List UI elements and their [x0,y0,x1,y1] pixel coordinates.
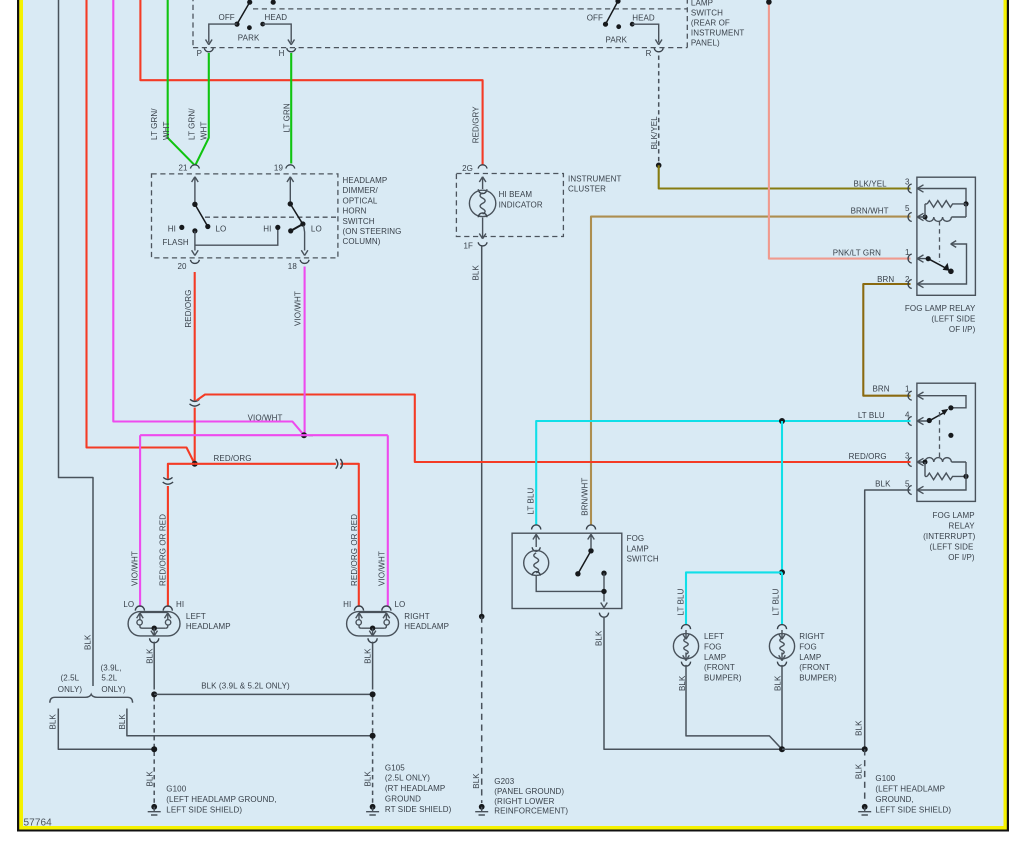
svg-text:BLK: BLK [84,634,93,650]
svg-text:HEADLAMP: HEADLAMP [186,622,231,631]
hi beam indicator bulb [469,190,495,216]
RED/ORG junction dot [192,461,198,467]
svg-text:19: 19 [274,164,284,173]
svg-text:(2.5L ONLY): (2.5L ONLY) [385,774,430,783]
svg-text:RED/GRY: RED/GRY [472,106,481,144]
svg-text:RT SIDE SHIELD): RT SIDE SHIELD) [385,805,452,814]
arrow into pin H [288,40,295,45]
fog switch common contact [588,548,593,553]
svg-text:BLK: BLK [472,265,481,281]
svg-text:HI: HI [343,600,351,609]
fog lamp switch box [512,533,622,608]
relay1 pin 5 cup [908,213,912,222]
left fog lamp input arrow [683,630,690,639]
svg-text:BLK: BLK [145,648,154,664]
left headlamp inner top line [140,611,168,613]
wire BRN/WHT relay1 pin5 to fog lamp switch [591,217,911,526]
svg-text:LEFT SIDE SHIELD): LEFT SIDE SHIELD) [875,806,951,815]
right headlamp HI cup [354,606,363,611]
svg-text:VIO/WHT: VIO/WHT [294,291,303,326]
svg-text:1: 1 [905,248,910,257]
wire BRN relay1 pin2 to relay2 pin1 [863,284,910,396]
relay2 pin 5 arrow [917,486,923,493]
dimmer pole2 aux contact [288,228,293,233]
relay1 resistor [927,201,966,208]
lamp switch left pole feed dots [247,0,252,5]
fog switch pin cup BRN/WHT [586,525,595,530]
fog switch lever open [578,551,591,574]
svg-text:5.2L: 5.2L [101,674,117,683]
wire LT BLU to left fog lamp [686,572,782,625]
right headlamp ground junction dots [370,691,376,697]
relay2 switch common contact [927,418,932,423]
pin 2G connector cup [478,165,487,169]
dimmer pole2 HI contact [275,225,280,230]
svg-text:(LEFT SIDE: (LEFT SIDE [930,543,974,552]
pin 18 connector cup [300,260,309,264]
fog switch lamp to output [536,576,604,591]
wire BLK left headlamp ground solid [153,642,155,690]
svg-text:G203: G203 [494,777,514,786]
inline connector on RED/ORG (vertical) [190,399,200,406]
svg-text:BLK: BLK [145,771,154,787]
lamp switch assembly dashed box [193,0,687,48]
arrow into pin R [655,40,662,45]
fog switch lamp bottom cup [532,572,540,576]
left headlamp ground junction dots [151,691,157,697]
dimmer pole2 input line with arrow up [287,177,294,204]
relay2 unused contact [948,433,953,438]
svg-text:G105: G105 [385,763,405,772]
svg-text:INDICATOR: INDICATOR [499,201,543,210]
svg-text:PANEL): PANEL) [691,39,720,48]
svg-text:(ON STEERING: (ON STEERING [343,227,402,236]
wire flash common to pin 20 and branch to pole2 HI [195,227,278,250]
svg-text:LT BLU: LT BLU [772,588,781,615]
fog lamp relay 2 box [917,383,976,501]
svg-text:BLK: BLK [678,675,687,691]
relay1 switch common contact [926,256,931,261]
svg-text:OFF: OFF [587,13,603,22]
svg-text:FOG LAMP: FOG LAMP [933,511,975,520]
svg-text:BRN: BRN [872,385,889,394]
svg-text:OF I/P): OF I/P) [949,325,976,334]
left fog lamp bottom cup [681,662,690,667]
fog lamp relay 1 box [917,177,976,295]
svg-text:RED/ORG OR RED: RED/ORG OR RED [159,514,168,586]
relay1 pin3 internal rail [917,189,966,204]
lamp switch right lever [606,1,619,24]
wire BLK/YEL solid to relay 1 pin 3 [659,165,911,188]
svg-text:20: 20 [177,262,187,271]
svg-text:FOG: FOG [627,534,645,543]
svg-text:2G: 2G [462,164,473,173]
svg-text:PARK: PARK [606,36,628,45]
fog switch output line [603,573,605,601]
svg-text:HEADLAMP: HEADLAMP [404,622,449,631]
right headlamp bottom cup [368,638,377,643]
wire bulb to pin 1F with arrow down [479,218,486,239]
left headlamp output arrow [151,628,158,636]
relay2 pin 3 cup [908,458,912,467]
svg-text:LEFT: LEFT [186,612,206,621]
junction dot on BLK at 616.5 [479,614,485,620]
dimmer pole2 LO contact [300,221,305,226]
lamp switch right HEAD contact [630,22,635,27]
svg-text:BRN/WHT: BRN/WHT [580,478,589,516]
svg-text:LAMP: LAMP [627,544,649,553]
right headlamp LO cup [382,606,391,611]
svg-text:LT GRN/: LT GRN/ [150,108,159,140]
svg-text:21: 21 [178,164,188,173]
relay2 internal junction dot [963,474,968,479]
svg-text:VIO/WHT: VIO/WHT [130,551,139,586]
wire LT BLU to right fog lamp [781,572,783,625]
svg-text:INSTRUMENT: INSTRUMENT [568,174,621,183]
relay1 pin 2 cup [908,280,912,289]
wire BLK left headlamp ground dashed [153,697,155,803]
wire BLK right headlamp ground dashed [372,697,374,803]
wire RED/GRY from top [140,0,482,165]
dimmer flash common contact [192,228,197,233]
relay2 coil-resistor left link [925,462,927,476]
wire LT BLU down to fog lamps [781,421,783,572]
relay2 pin 1 cup [908,391,912,400]
svg-text:ONLY): ONLY) [58,685,83,694]
fog switch lamp filament [534,553,539,573]
svg-text:SWITCH: SWITCH [691,9,723,18]
svg-text:GROUND,: GROUND, [875,795,913,804]
hi beam bulb top cup [478,189,487,193]
ground symbol G203 [475,804,488,815]
svg-text:FOG: FOG [704,642,722,651]
fog switch pin cup LT BLU [532,525,541,530]
dimmer pole1 pivot [192,202,197,207]
svg-text:BLK: BLK [854,720,863,736]
svg-text:PNK/LT GRN: PNK/LT GRN [833,249,881,258]
left fog lamp output arrow [683,653,690,661]
svg-text:HI: HI [176,600,184,609]
svg-text:BUMPER): BUMPER) [799,674,837,683]
svg-text:18: 18 [288,262,298,271]
left headlamp HI cup [163,606,172,611]
svg-text:LO: LO [123,600,134,609]
svg-text:RELAY: RELAY [949,522,976,531]
pin R connector cup [654,48,663,52]
lamp switch left PARK contact [247,25,252,30]
hi beam bulb filament [480,193,485,214]
dimmer pole1 LO contact [205,224,210,229]
relay1 actuator dashed link [939,221,941,262]
svg-text:(2.5L: (2.5L [61,674,80,683]
lamp switch left HEAD contact [260,22,265,27]
right headlamp output arrow [369,628,376,636]
relay2 pin 3 arrow [917,458,925,465]
engine option brace [50,694,133,703]
relay1 fixed contact [951,241,957,248]
wire LT BLU horizontal to relay2 pin 4 [536,421,910,526]
svg-text:INSTRUMENT: INSTRUMENT [691,29,744,38]
right fog lamp body [769,634,794,659]
svg-text:(INTERRUPT): (INTERRUPT) [923,532,975,541]
relay1 fixed contact to pin 2 rail [917,244,966,284]
svg-text:OFF: OFF [219,13,235,22]
fog switch output junction dot [601,589,606,594]
right fog lamp filament [780,638,784,654]
wire BLK right fog lamp [781,665,783,749]
ground symbol right G100 [858,804,871,815]
svg-text:HORN: HORN [343,207,367,216]
svg-text:SWITCH: SWITCH [343,217,375,226]
svg-text:HEAD: HEAD [632,13,655,22]
arrow into pin P [206,40,213,45]
dimmer pole1 HI contact [179,225,184,230]
fog switch contact input arrow [588,534,595,548]
wire PNK/LT GRN from top to relay1 pin 1 [769,0,911,259]
svg-text:BLK/YEL: BLK/YEL [650,116,659,150]
wire VIO/WHT from pin 18 down [304,267,306,436]
svg-text:(FRONT: (FRONT [799,663,830,672]
wire BLK from fog switch [604,617,782,750]
wire pole2 LO to pin 18 [304,226,305,251]
svg-text:BLK: BLK [49,714,58,730]
svg-text:LAMP: LAMP [704,653,726,662]
right headlamp LO filament [383,613,390,628]
wire pivot to pin P [209,24,237,42]
left headlamp bottom rail [142,627,166,629]
wire BLK left fog lamp [686,665,782,749]
svg-text:SWITCH: SWITCH [627,555,659,564]
svg-text:OF I/P): OF I/P) [948,553,975,562]
svg-text:LO: LO [395,600,406,609]
PNK/LT GRN top feed dot [766,0,772,5]
relay2 pin1 rail to fixed contact [917,396,966,408]
wire RED/ORG connector to junction [194,408,196,464]
instrument cluster dashed box [456,174,563,237]
wire LT GRN from pin H to pin 19 [290,53,292,164]
svg-text:BLK: BLK [472,773,481,789]
svg-text:3: 3 [905,452,910,461]
right fog lamp bottom cup [777,662,786,667]
svg-text:RED/ORG: RED/ORG [184,290,193,328]
svg-text:BLK: BLK [364,771,373,787]
right headlamp common dot [370,626,375,631]
wire BLK from 1F down [481,247,483,617]
svg-text:LT GRN/: LT GRN/ [188,108,197,140]
fog lamp ground junction dot [779,746,785,752]
svg-text:(FRONT: (FRONT [704,663,735,672]
left headlamp common dot [152,626,157,631]
VIO/WHT junction tick [309,434,313,436]
ground symbol left G100 [148,804,161,815]
dimmer pole2 pivot [288,201,293,206]
junction dot BLK/YEL [656,163,662,169]
svg-text:BRN/WHT: BRN/WHT [851,206,889,215]
svg-text:WHT: WHT [162,121,171,140]
relay1 pin 2 arrow [917,280,923,287]
svg-text:(LEFT SIDE: (LEFT SIDE [931,315,975,324]
svg-text:RIGHT: RIGHT [799,632,824,641]
fog switch lamp top cup [532,547,540,551]
svg-text:HI: HI [263,224,271,233]
svg-text:(LEFT HEADLAMP: (LEFT HEADLAMP [875,785,945,794]
svg-text:4: 4 [905,411,910,420]
svg-text:2: 2 [905,275,910,284]
wire LT GRN/WHT from top to pin 21 [168,0,195,165]
relay1 internal junction dot [963,201,968,206]
VIO/WHT junction dot [301,432,307,438]
relay1 pin 5 arrow [917,213,925,220]
fog switch output cup [599,613,608,618]
wire HEAD contact to pin H [263,24,292,42]
wire BLK dashed to right G100 [864,749,866,803]
relay1 pin 3 cup [908,184,912,193]
wire RED/ORG junction to left headlamp HI [168,464,195,607]
svg-text:CLUSTER: CLUSTER [568,184,606,193]
wire RED/ORG from pin 20 down [194,272,196,401]
dimmer pole2 aux link [291,224,303,231]
arrow into pin 18 [301,250,308,255]
wire RED/ORG branch to relay2 feed [197,395,911,463]
svg-text:ONLY): ONLY) [101,685,126,694]
fog switch lamp input arrow [533,534,540,547]
wire VIO/WHT junction to headlamp LO pins [140,435,388,607]
wire RED/ORG junction to right headlamp HI [195,464,359,607]
hi beam bulb bottom cup [478,213,487,217]
svg-text:LO: LO [311,224,322,233]
fog switch fixed contact [601,571,606,576]
right headlamp HI filament [356,613,363,628]
wire BLK/YEL dashed from pin R [658,56,660,165]
lamp switch right pole feed dot [615,0,620,4]
left fog lamp top cup [681,625,690,630]
svg-text:LT BLU: LT BLU [676,588,685,615]
LT BLU junction dot lower [779,569,785,575]
svg-text:BLK (3.9L & 5.2L ONLY): BLK (3.9L & 5.2L ONLY) [201,682,290,691]
svg-text:VIO/WHT: VIO/WHT [248,414,283,423]
svg-text:LO: LO [216,224,227,233]
dimmer pole1 lever to LO [195,204,208,226]
svg-text:BLK: BLK [595,630,604,646]
relay2 coil [925,458,966,462]
pin 19 connector cup [286,165,295,169]
pin 20 connector cup [190,260,199,264]
lamp switch right PARK contact [616,24,621,29]
svg-text:OPTICAL: OPTICAL [343,196,378,205]
wire BLK 3.9L 5.2L interconnect [154,693,372,695]
svg-text:WHT: WHT [200,121,209,140]
relay1 coil [925,204,966,222]
svg-text:RED/ORG OR RED: RED/ORG OR RED [350,514,359,586]
svg-text:BUMPER): BUMPER) [704,674,742,683]
right ground junction dot [862,746,868,752]
LT BLU junction dot upper [779,418,785,424]
right headlamp bottom rail [361,627,384,629]
svg-text:(RT HEADLAMP: (RT HEADLAMP [385,784,445,793]
relay2 pin 5 cup [908,486,912,495]
relay2 pin 4 cup [908,417,912,426]
svg-text:R: R [646,49,652,58]
svg-text:BLK: BLK [875,480,891,489]
relay2 pin 1 arrow [917,392,923,399]
wire BLK right headlamp ground solid [372,642,374,690]
wire BLK relay2 pin5 to ground junction [782,490,911,749]
svg-text:LT BLU: LT BLU [858,411,885,420]
svg-text:(RIGHT LOWER: (RIGHT LOWER [494,797,554,806]
pin 1F connector cup [478,242,487,246]
arrow into pin 20 [192,250,199,255]
svg-text:HI BEAM: HI BEAM [499,190,533,199]
left fog lamp body [673,634,698,659]
svg-text:REINFORCEMENT): REINFORCEMENT) [494,807,568,816]
dimmer pole1 input line with arrow up [192,177,199,205]
svg-text:FLASH: FLASH [163,238,189,247]
relay2 actuator dashed link [939,412,941,459]
svg-text:HI: HI [168,224,176,233]
left headlamp LO filament [137,613,144,628]
svg-text:BLK/YEL: BLK/YEL [854,180,888,189]
svg-text:DIMMER/: DIMMER/ [343,186,379,195]
wire HEAD contact to pin R [632,24,659,42]
pin 21 connector cup [190,165,199,169]
svg-text:1F: 1F [463,242,473,251]
svg-text:VIO/WHT: VIO/WHT [378,551,387,586]
right fog lamp top cup [777,625,786,630]
svg-text:(REAR OF: (REAR OF [691,19,730,28]
fog switch output arrow [601,603,608,608]
svg-text:FOG: FOG [799,642,817,651]
wire BLK 2.5L branch [58,709,154,750]
svg-text:LEFT: LEFT [704,632,724,641]
relay2 resistor [927,473,966,480]
svg-text:RED/ORG: RED/ORG [214,454,252,463]
svg-text:RED/ORG: RED/ORG [849,452,887,461]
svg-text:BLK: BLK [364,648,373,664]
svg-text:LEFT SIDE SHIELD): LEFT SIDE SHIELD) [166,806,242,815]
relay2 energized lever with arrowhead [929,413,944,421]
svg-text:HEADLAMP: HEADLAMP [343,176,388,185]
svg-text:LT BLU: LT BLU [527,487,536,514]
wire BLK 3.9L branch [127,709,373,736]
svg-text:BLK: BLK [854,763,863,779]
relay1 pin 1 cup [908,254,912,263]
svg-text:P: P [197,49,202,58]
svg-text:3: 3 [905,178,910,187]
left headlamp body [128,612,180,636]
inline connector on RED/ORG (horizontal) [336,459,343,469]
wire 2G to hi beam bulb with arrow up [479,177,486,189]
svg-text:(3.9L,: (3.9L, [101,664,122,673]
svg-text:HEAD: HEAD [265,13,288,22]
pin P connector cup [204,48,213,52]
left fog lamp filament [684,638,688,654]
svg-text:PARK: PARK [238,34,260,43]
right fog lamp output arrow [779,653,786,661]
left headlamp bottom cup [150,638,159,643]
dimmer mechanical link dashed [205,216,337,218]
relay2 fixed contact [948,405,953,410]
svg-text:5: 5 [905,480,910,489]
svg-text:5: 5 [905,204,910,213]
svg-text:FOG LAMP RELAY: FOG LAMP RELAY [905,304,976,313]
inline connector on left headlamp HI wire [163,477,173,484]
svg-text:RIGHT: RIGHT [404,612,429,621]
wire VIO/WHT feed left [113,0,304,435]
svg-text:LT GRN: LT GRN [283,103,292,132]
wire RED feed left [87,0,195,464]
right headlamp inner top line [359,611,386,613]
relay2 internal rail pin5 [917,462,966,490]
